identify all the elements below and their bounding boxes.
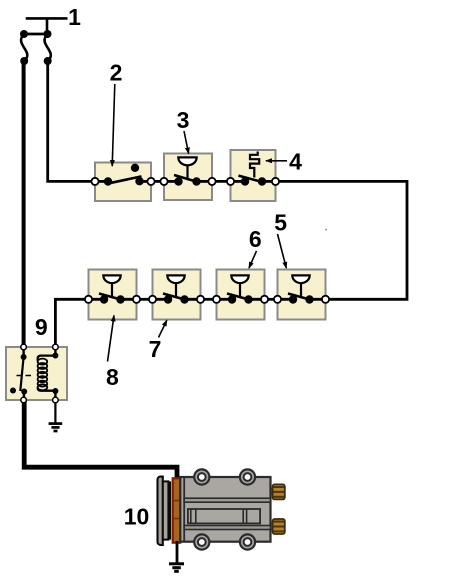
- wire: switch 6 to switch 5: [265, 298, 278, 301]
- svg-text:10: 10: [124, 504, 150, 530]
- svg-text:4: 4: [289, 149, 302, 175]
- switch 3 (pressure switch): [160, 154, 215, 201]
- svg-text:5: 5: [274, 210, 287, 236]
- ground (relay coil): [49, 424, 63, 431]
- port fitting (bottom): [271, 519, 285, 534]
- leader arrow from label 5 to switch 5: [278, 234, 287, 268]
- ground (compressor): [169, 564, 184, 572]
- fuse F2 (right): [44, 30, 52, 65]
- wire: relay coil to ground: [54, 403, 56, 423]
- wire: switch 7 to switch 6: [201, 298, 217, 301]
- wire: switch 8 to switch 7: [137, 298, 153, 301]
- svg-text:7: 7: [149, 336, 162, 362]
- leader arrow from label 7 to switch 7: [159, 320, 167, 337]
- wire: switch 2 to switch 3: [151, 180, 164, 183]
- clutch plate: [173, 478, 181, 542]
- leader arrow from label 8 to switch 8: [108, 316, 115, 362]
- leader arrow from label 4 to switch 4: [266, 160, 287, 162]
- wire: relay output down and over to compressor clutch: [24, 400, 177, 480]
- svg-text:3: 3: [177, 107, 190, 133]
- pulley: [158, 477, 172, 545]
- mounting bolts: [194, 469, 255, 549]
- wire: fuse tie bar: [24, 33, 48, 36]
- compressor body: [180, 477, 270, 542]
- leader arrow from label 2 to switch 2: [112, 84, 115, 166]
- compressor 10: [158, 469, 285, 549]
- battery bus bar (node 1): [26, 18, 68, 34]
- switch 6 (pressure switch): [213, 270, 268, 320]
- leader arrow from label 6 to switch 6: [249, 251, 257, 268]
- switch 4 (thermal limiter switch): [227, 150, 279, 201]
- wire: switch row 2 over and down to relay coil: [55, 299, 88, 347]
- leader arrow from label 3 to switch 3: [184, 131, 189, 154]
- wire: clutch to ground: [176, 541, 179, 563]
- svg-text:9: 9: [35, 314, 48, 340]
- fuse F1 (left): [20, 30, 28, 65]
- wire: main feed from fuse F1 down to relay: [22, 61, 26, 347]
- wire: switch 3 to switch 4: [212, 180, 231, 183]
- wire: fuse F2 down and over to switch 2: [48, 61, 95, 181]
- svg-text:2: 2: [110, 59, 123, 85]
- artifact dot: [325, 229, 327, 231]
- relay 9: [6, 344, 67, 403]
- svg-text:1: 1: [68, 4, 81, 30]
- svg-text:8: 8: [106, 364, 119, 390]
- switch 5 (pressure switch): [274, 270, 329, 320]
- switch 2 (A/C control switch): [91, 163, 154, 202]
- switch 7 (pressure switch): [149, 270, 204, 320]
- svg-text:6: 6: [249, 226, 262, 252]
- switch 8 (pressure switch): [85, 270, 140, 320]
- port fitting (top): [271, 484, 285, 499]
- wire: switch 4 right side loop to switch 5: [276, 181, 408, 299]
